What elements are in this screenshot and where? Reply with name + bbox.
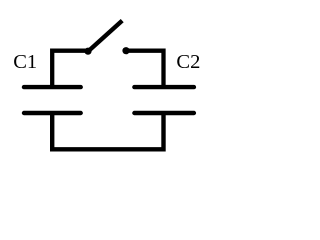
label C1 — [13, 52, 37, 73]
capacitor C1 top plate — [24, 85, 81, 89]
wire: bottom return run joining C1 and C2 lower plates — [52, 114, 163, 150]
switch S1 right contact node — [122, 47, 129, 54]
switch S1 left contact node — [84, 48, 91, 55]
capacitor C2 bottom plate — [134, 111, 194, 115]
capacitor C2 top plate — [134, 85, 194, 89]
wire: top-right horizontal run and right riser — [127, 51, 164, 88]
switch S1 lever (open blade) — [89, 21, 123, 51]
wire: left riser and top-left horizontal run — [52, 51, 86, 88]
capacitor C1 bottom plate — [24, 111, 81, 115]
label C2 — [176, 52, 200, 73]
